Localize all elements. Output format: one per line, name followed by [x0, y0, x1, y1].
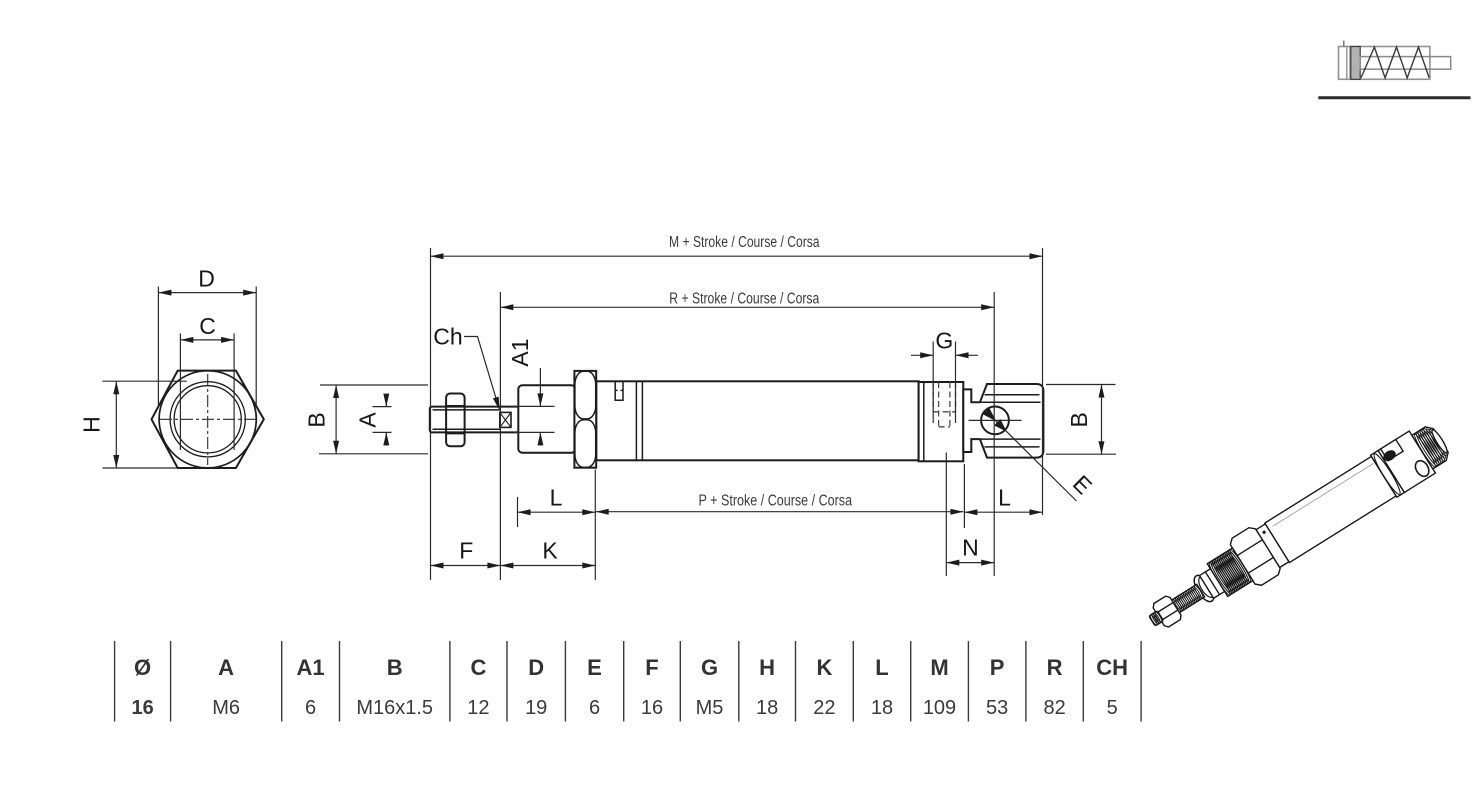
svg-text:A1: A1 [507, 338, 533, 366]
svg-text:Ø: Ø [134, 655, 151, 680]
middle circle [170, 382, 245, 457]
icon spring [1361, 47, 1429, 78]
svg-text:6: 6 [305, 697, 316, 719]
head/tube joint double line [635, 381, 637, 460]
ext hex face [594, 470, 596, 581]
svg-text:M6: M6 [212, 697, 240, 719]
svg-text:M5: M5 [696, 697, 724, 719]
svg-text:D: D [198, 266, 215, 292]
rear head block [919, 382, 964, 461]
svg-text:18: 18 [871, 697, 893, 719]
cushion slot bracket [615, 382, 623, 400]
svg-text:D: D [528, 655, 544, 680]
svg-text:A1: A1 [297, 655, 325, 680]
B right extension lines [1046, 384, 1116, 386]
r3d hex nut [1228, 525, 1283, 588]
svg-text:B: B [387, 655, 403, 680]
mounting hex bulge [574, 371, 596, 468]
B left dimension line [335, 385, 337, 454]
head joint line [923, 382, 925, 461]
port circle [981, 407, 1009, 435]
svg-text:P + Stroke / Course / Corsa: P + Stroke / Course / Corsa [699, 492, 853, 509]
svg-text:L: L [875, 655, 888, 680]
ext cap face stub [517, 497, 519, 527]
svg-text:16: 16 [641, 697, 663, 719]
r3d thread bushing [1207, 548, 1253, 596]
P + Stroke dimension [596, 511, 964, 513]
svg-text:12: 12 [467, 697, 489, 719]
H dimension line [115, 381, 117, 468]
C extension lines [179, 334, 181, 451]
r3d port hole [1413, 458, 1432, 479]
port flow triangles [983, 408, 996, 421]
svg-text:G: G [935, 328, 953, 354]
F dimension [431, 565, 501, 567]
svg-text:K: K [816, 655, 832, 680]
svg-text:F: F [459, 538, 473, 564]
R + Stroke dimension [500, 306, 994, 308]
r3d rod thread [1171, 584, 1205, 613]
svg-text:L: L [998, 485, 1011, 511]
svg-text:K: K [542, 538, 558, 564]
A1 extension ticks [514, 405, 555, 407]
r3d rod nut [1151, 595, 1182, 629]
D extension lines [157, 287, 159, 407]
svg-text:R + Stroke / Course / Corsa: R + Stroke / Course / Corsa [669, 290, 819, 307]
icon cap lines [1346, 47, 1348, 80]
ext rod tip [430, 248, 432, 580]
piston rod [430, 407, 519, 433]
svg-text:L: L [550, 485, 563, 511]
icon body [1339, 47, 1430, 80]
r3d collar2 [1256, 524, 1289, 568]
inner circle [174, 386, 241, 453]
rod nut [446, 394, 465, 447]
E leader diagonal [985, 410, 1076, 501]
H extension lines [102, 380, 186, 382]
svg-text:53: 53 [986, 697, 1008, 719]
r3d tube [1265, 456, 1396, 562]
svg-text:CH: CH [1096, 655, 1128, 680]
separator rule [1318, 96, 1470, 99]
L dimension left [518, 511, 596, 513]
G extension lines [932, 342, 934, 424]
C dimension line [180, 339, 234, 341]
ext port center [993, 292, 995, 576]
A extension ticks [373, 406, 392, 408]
svg-text:G: G [701, 655, 718, 680]
N dimension [946, 562, 994, 564]
svg-text:C: C [470, 655, 486, 680]
svg-text:P: P [990, 655, 1005, 680]
icon rod [1360, 57, 1451, 70]
svg-text:109: 109 [923, 697, 956, 719]
Ch leader [464, 337, 500, 411]
svg-text:Ch: Ch [433, 324, 462, 350]
rod thread minor lines [433, 409, 501, 411]
wrench-flat box [500, 412, 511, 427]
svg-text:C: C [199, 313, 216, 339]
r3d sensor notch [1381, 439, 1403, 460]
ext nose face [499, 292, 501, 580]
svg-text:M16x1.5: M16x1.5 [356, 697, 433, 719]
A1 arrows [539, 368, 541, 406]
rear threaded boss profile [963, 384, 1043, 458]
vertical centerline [207, 374, 209, 465]
port circle centerline [969, 419, 1022, 421]
icon port tick [1343, 41, 1345, 47]
ext cap end [1042, 248, 1044, 515]
G arrows [911, 354, 933, 356]
svg-text:19: 19 [525, 697, 547, 719]
svg-text:B: B [1066, 412, 1092, 427]
svg-text:A: A [355, 412, 381, 428]
svg-text:6: 6 [589, 697, 600, 719]
r3d rod stub [1149, 611, 1164, 626]
svg-text:E: E [587, 655, 602, 680]
r3d rear block [1378, 431, 1435, 492]
svg-text:M + Stroke / Course / Corsa: M + Stroke / Course / Corsa [669, 234, 820, 251]
ext rear head start [945, 453, 947, 577]
svg-text:82: 82 [1043, 697, 1065, 719]
nose cap [518, 385, 575, 452]
hidden port thread (dashed) [932, 382, 934, 412]
r3d boss [1412, 424, 1451, 469]
A arrows [385, 394, 387, 407]
svg-text:E: E [1068, 470, 1097, 499]
svg-text:16: 16 [131, 697, 153, 719]
svg-text:22: 22 [813, 697, 835, 719]
boss root lines [981, 401, 1041, 403]
outer circle [159, 371, 256, 468]
r3d bearing collar [1190, 572, 1217, 605]
r3d rear ring [1371, 450, 1405, 497]
svg-text:N: N [962, 535, 979, 561]
ext boss start stub [963, 464, 965, 528]
svg-text:F: F [645, 655, 658, 680]
icon piston [1351, 47, 1360, 80]
svg-text:H: H [759, 655, 775, 680]
horizontal centerline [160, 418, 256, 420]
svg-text:5: 5 [1107, 697, 1118, 719]
hexagon body [152, 371, 264, 468]
K dimension [500, 565, 595, 567]
svg-text:M: M [930, 655, 948, 680]
svg-text:A: A [218, 655, 234, 680]
svg-text:R: R [1047, 655, 1063, 680]
B right dimension line [1101, 385, 1103, 455]
D dimension line [158, 292, 256, 294]
M + Stroke dimension [431, 255, 1043, 257]
cylinder body barrel [596, 381, 918, 460]
L dimension right [964, 511, 1042, 513]
svg-text:18: 18 [756, 697, 778, 719]
B left extension lines [320, 384, 428, 386]
svg-text:B: B [304, 412, 330, 427]
svg-text:H: H [79, 416, 105, 433]
boss thread minor lines [985, 394, 1040, 396]
